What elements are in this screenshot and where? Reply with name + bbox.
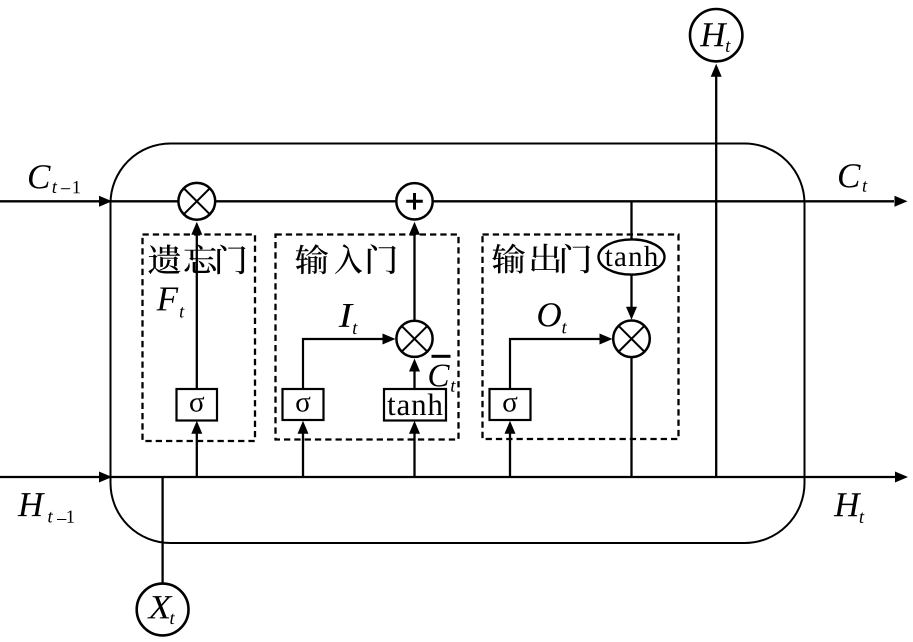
label input gate 输入门 [295, 244, 396, 274]
label C_t-1 input left [29, 165, 51, 188]
node arrow into cell left on C line [99, 196, 112, 207]
label H_t output right bottom [834, 493, 861, 516]
label I_t input gate [339, 304, 354, 327]
wire multiply3 down to H line [630, 358, 632, 477]
label C_t output right [839, 164, 861, 187]
output gate dashed box [483, 235, 679, 440]
wire H line up into sigma3 [509, 432, 511, 477]
wire sigma2 up and right into multiply2 [303, 339, 384, 389]
sigma box forget gate [177, 389, 218, 421]
label C-bar_t candidate [429, 364, 449, 386]
wire H line up to Ht circle [715, 75, 717, 477]
label forget gate 遗忘门 [148, 245, 245, 275]
multiply node x3 (output) [613, 321, 650, 358]
wire H line up into sigma1 [196, 432, 198, 477]
Ht output circle top [690, 9, 742, 61]
wire C line down to tanh ellipse [630, 201, 632, 240]
sigma box output gate [490, 389, 531, 420]
node arrow into cell left on H line [99, 472, 112, 483]
node arrow H_t output right [895, 472, 908, 483]
wire Xt circle up to H line [161, 477, 163, 583]
wire H line up into sigma2 [302, 432, 304, 477]
label output gate 输出门 [492, 244, 590, 274]
wire tanh box up into multiply2 [413, 370, 415, 389]
multiply node x1 on C line (forget) [178, 183, 215, 220]
tanh ellipse on output branch [599, 239, 665, 274]
wire hidden-state line Ht-1 to Ht [0, 476, 895, 478]
wire H line up into tanh box [413, 432, 415, 477]
node arrow C_t output [895, 196, 908, 207]
wire cell-state line Ct-1 to Ct [0, 200, 894, 202]
forget gate dashed box [143, 235, 256, 442]
multiply node x2 (input) [396, 321, 432, 357]
wire sigma3 up and right into multiply3 [510, 339, 600, 389]
label F_t forget gate [157, 287, 179, 310]
Xt input circle bottom [137, 584, 189, 636]
LSTM cell body rounded rectangle [111, 144, 805, 544]
label O_t output gate [538, 303, 561, 327]
label H_t-1 input left bottom [18, 493, 45, 516]
input gate dashed box [276, 235, 459, 440]
sigma box input gate [283, 389, 324, 420]
plus node on C line [396, 183, 432, 219]
wire sigma1 up to multiply1 [196, 233, 198, 389]
wire multiply2 up into plus [413, 233, 415, 320]
wire tanh ellipse down into multiply3 [630, 275, 632, 308]
tanh box input gate [384, 389, 446, 421]
